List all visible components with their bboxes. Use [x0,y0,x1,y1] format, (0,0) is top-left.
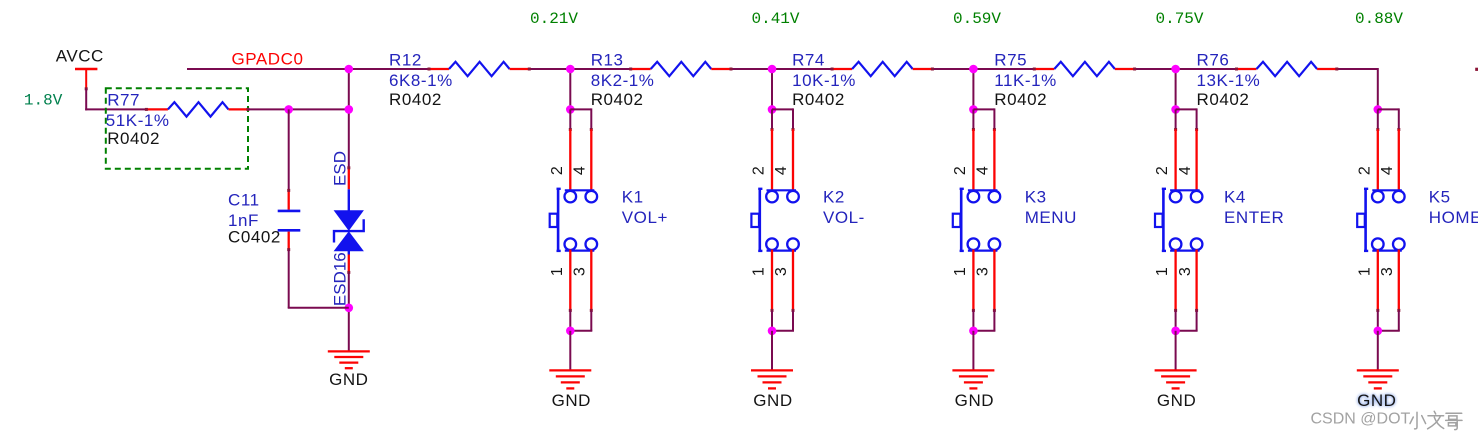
resistor R75 [1033,62,1136,76]
svg-text:0.41V: 0.41V [752,10,800,28]
node junction K2 to ground [768,327,777,336]
svg-text:0.75V: 0.75V [1156,10,1204,28]
svg-text:6K8-1%: 6K8-1% [389,71,453,90]
node junction bus/ESD [348,69,350,109]
wire bus to K3 [972,69,974,109]
wire GPADC0 bus segment 6 [1336,68,1378,70]
push button K5 symbol [1357,189,1404,251]
push button K4 symbol [1155,189,1202,251]
GND label (K5) [1357,391,1396,410]
svg-text:CSDN @DOT: CSDN @DOT [1311,410,1411,427]
K2 pin 4 wire (red) [792,128,795,192]
push button K2 symbol [751,189,798,251]
watermark hanzi xiao [1410,412,1426,429]
wire K2 to ground [771,331,773,371]
K3 pin 2 wire (red) [972,128,975,192]
svg-text:R77: R77 [107,90,140,109]
svg-text:K2: K2 [823,188,845,207]
ground GND (K5) [1357,370,1399,388]
ground GND (K2) [751,370,793,388]
svg-text:3: 3 [773,267,790,276]
svg-text:13K-1%: 13K-1% [1197,71,1261,90]
svg-text:R0402: R0402 [591,90,644,109]
wire GPADC0 bus segment 4 [932,68,1035,70]
svg-text:4: 4 [975,166,992,175]
node junction K5 pins split [1374,105,1383,114]
push button K1 symbol [550,189,597,251]
svg-text:VOL+: VOL+ [622,208,668,227]
wire ESD column row2 down to diode [348,109,350,167]
wire K3 pin bracket top [973,108,994,129]
wire K1 pin bracket top [570,108,591,129]
svg-text:R0402: R0402 [1197,90,1250,109]
wire K1 pin bracket bottom [570,311,592,331]
wire bus to K5 [1377,68,1379,109]
power symbol AVCC [75,69,97,90]
svg-text:GND: GND [955,391,994,410]
capacitor C11 [278,189,301,251]
svg-text:C0402: C0402 [228,228,281,247]
svg-text:R0402: R0402 [389,90,442,109]
K4 pin 4 wire (red) [1195,128,1198,192]
svg-text:R12: R12 [389,51,422,70]
svg-text:1: 1 [549,267,566,276]
svg-text:R0402: R0402 [994,90,1047,109]
node junction K3 pins split [969,105,978,114]
node junction bus/K2 [768,65,777,74]
svg-text:1: 1 [751,267,768,276]
svg-text:1: 1 [952,267,969,276]
wire K5 to ground [1377,331,1379,371]
ground GND (ESD branch) [328,351,370,368]
node junction K4 to ground [1171,327,1180,336]
svg-text:GND: GND [1357,391,1396,410]
K3 pin 1 wire (red) [972,250,975,312]
K4 pin 3 wire (red) [1195,250,1198,312]
svg-text:3: 3 [975,267,992,276]
push button K3 symbol [953,189,1000,251]
resistor R13 [629,62,732,76]
wire GPADC0 bus segment 5 [1134,68,1236,70]
wire GPADC0 bus segment 1 [187,68,429,70]
K3 pin 4 wire (red) [993,128,996,192]
svg-text:GPADC0: GPADC0 [232,50,304,69]
svg-text:0.21V: 0.21V [530,10,578,28]
K3 pin 3 wire (red) [993,250,996,312]
svg-text:ENTER: ENTER [1224,208,1284,227]
svg-text:MENU: MENU [1025,208,1077,227]
svg-text:ESD16: ESD16 [330,252,349,306]
wire K4 pin bracket top [1176,108,1197,129]
svg-text:R76: R76 [1197,51,1230,70]
TVS diode D1 ESD [334,166,364,274]
node junction K3 to ground [969,327,978,336]
resistor R74 [831,62,934,76]
wire C11 branch from row2 [288,109,290,190]
wire C11 bottom to ESD ground node [288,250,349,308]
svg-text:VOL-: VOL- [823,208,865,227]
resistor R12 [428,62,531,76]
wire K3 pin bracket bottom [973,311,995,331]
svg-text:4: 4 [572,166,589,175]
K4 pin 1 wire (red) [1174,250,1177,312]
wire row2 from R77 to ESD column [248,108,349,110]
wire K5 pin bracket top [1378,108,1399,129]
K5 pin 2 wire (red) [1376,128,1379,192]
svg-text:3: 3 [1177,267,1194,276]
svg-text:8K2-1%: 8K2-1% [591,71,655,90]
svg-text:2: 2 [1154,166,1171,175]
K2 pin 2 wire (red) [771,128,774,192]
svg-text:1.8V: 1.8V [24,92,63,110]
ground GND (K1) [549,370,591,388]
wire GPADC0 bus segment 3 [730,68,832,70]
wire K5 pin bracket bottom [1378,311,1400,331]
K2 pin 1 wire (red) [771,250,774,312]
svg-text:K4: K4 [1224,188,1246,207]
watermark hanzi ge [1446,413,1462,429]
wire bus to K1 [569,69,571,109]
node junction K2 pins split [768,105,777,114]
svg-text:R0402: R0402 [792,90,845,109]
svg-text:2: 2 [751,166,768,175]
wire K1 to ground [569,331,571,371]
svg-text:10K-1%: 10K-1% [792,71,856,90]
svg-text:2: 2 [952,166,969,175]
K1 pin 1 wire (red) [569,250,572,312]
ground GND (K3) [952,370,994,388]
svg-text:GND: GND [1157,391,1196,410]
K4 pin 2 wire (red) [1174,128,1177,192]
svg-text:1: 1 [1154,267,1171,276]
svg-text:ESD: ESD [330,151,349,186]
svg-text:4: 4 [1379,166,1396,175]
node junction K1 pins split [566,105,575,114]
K5 pin 4 wire (red) [1397,128,1400,192]
wire K4 pin bracket bottom [1176,311,1198,331]
node junction bus/K4 [1171,65,1180,74]
svg-text:4: 4 [1177,166,1194,175]
watermark hanzi wen [1428,411,1444,429]
node junction K1 to ground [566,327,575,336]
K1 pin 3 wire (red) [590,250,593,312]
wire GPADC0 bus segment 2 [529,68,630,70]
svg-text:AVCC: AVCC [56,47,104,66]
svg-text:51K-1%: 51K-1% [106,111,170,130]
resistor R77 [145,102,250,116]
wire ESD to ground [348,273,350,352]
svg-text:HOME: HOME [1429,208,1478,227]
wire K4 to ground [1175,331,1177,371]
svg-text:0.59V: 0.59V [953,10,1001,28]
svg-text:11K-1%: 11K-1% [994,71,1057,90]
wire stub at right edge [1475,68,1478,71]
svg-text:GND: GND [753,391,792,410]
K5 pin 1 wire (red) [1376,250,1379,312]
svg-text:K3: K3 [1025,188,1047,207]
svg-text:K5: K5 [1429,188,1451,207]
wire K2 pin bracket bottom [772,311,794,331]
wire bus to K4 [1175,69,1177,109]
svg-text:R0402: R0402 [107,129,160,148]
svg-text:3: 3 [1379,267,1396,276]
svg-text:3: 3 [572,267,589,276]
svg-text:1: 1 [1356,267,1373,276]
svg-text:R75: R75 [994,51,1027,70]
ground GND (K4) [1155,370,1197,388]
svg-text:2: 2 [1356,166,1373,175]
wire from AVCC down to row2 [85,89,146,111]
wire K3 to ground [972,331,974,371]
K1 pin 2 wire (red) [569,128,572,192]
K2 pin 3 wire (red) [792,250,795,312]
wire bus to K2 [771,69,773,109]
svg-text:0.88V: 0.88V [1355,10,1403,28]
svg-text:C11: C11 [228,190,260,209]
node junction K4 pins split [1171,105,1180,114]
node junction bus/K3 [969,65,978,74]
svg-text:GND: GND [329,370,368,389]
K1 pin 4 wire (red) [590,128,593,192]
svg-text:2: 2 [549,166,566,175]
resistor R76 [1235,62,1338,76]
node junction K5 to ground [1374,327,1383,336]
svg-text:R13: R13 [591,51,624,70]
dashed highlight box around R77 [106,88,248,169]
K5 pin 3 wire (red) [1397,250,1400,312]
svg-text:R74: R74 [792,51,825,70]
wire K2 pin bracket top [772,108,793,129]
svg-text:K1: K1 [622,188,644,207]
svg-text:4: 4 [773,166,790,175]
node junction bus/K1 [566,65,575,74]
node junction ESD/C11 ground [345,304,354,313]
svg-text:GND: GND [552,391,591,410]
